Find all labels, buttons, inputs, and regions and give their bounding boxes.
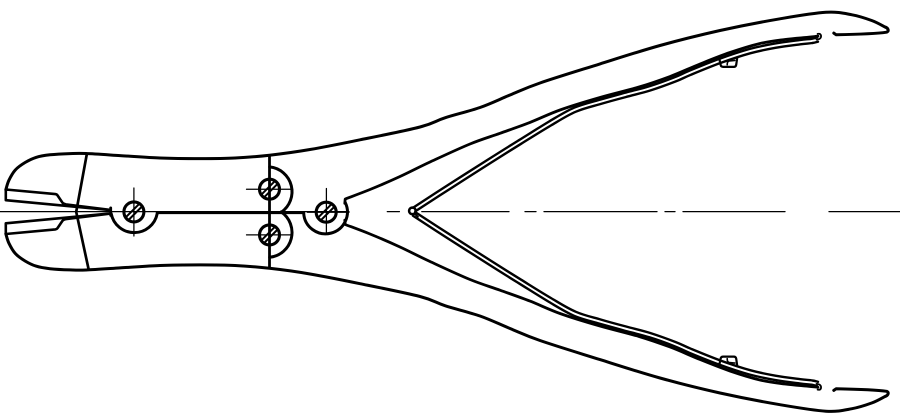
blade tip bar: [109, 208, 112, 216]
screw S3 head circle: [260, 225, 280, 245]
screw S4 horizontal centerline: [307, 211, 349, 213]
jaw bevel edge line: [76, 154, 88, 269]
screw S4 head circle: [316, 202, 336, 222]
upper half group: [6, 12, 888, 211]
lower half: mirrored copy of upper handle, blade, spring, clip: [6, 212, 888, 411]
upper handle clip: [719, 58, 737, 67]
upper spring leaf line 2: [415, 42, 818, 212]
spring vertex eye: [409, 208, 416, 215]
screw S2 boss arc: [270, 167, 292, 212]
upper spring leaf line 1: [413, 38, 817, 208]
screw S2 hatch: [261, 181, 277, 197]
upper handle outer outline: [6, 12, 888, 190]
screw S1 head circle: [124, 202, 144, 222]
upper handle inner edge: [345, 36, 818, 203]
screw S1 boss arc: [111, 214, 157, 233]
screw S4 vertical centerline: [325, 189, 327, 235]
screw S2 head circle: [260, 179, 280, 199]
screw S3 hatch: [261, 227, 277, 243]
upper jaw blade: [6, 190, 111, 211]
screw S4 hatch: [318, 204, 334, 220]
screw S4 boss arc: [304, 203, 348, 234]
screw S3 horizontal centerline: [247, 234, 293, 236]
screw S3 boss arc: [270, 212, 292, 257]
upper spring end hook: [817, 34, 822, 40]
jaw seam line: [157, 211, 304, 214]
upper handle clip inner hook: [727, 60, 735, 64]
spring vertex tail: [414, 213, 418, 217]
screw S2 horizontal centerline: [247, 188, 293, 190]
screw S1 hatch: [126, 204, 142, 220]
horizontal centerline: [0, 211, 900, 213]
pivot plate edge: [268, 156, 271, 267]
screw S1 vertical centerline: [133, 188, 135, 236]
